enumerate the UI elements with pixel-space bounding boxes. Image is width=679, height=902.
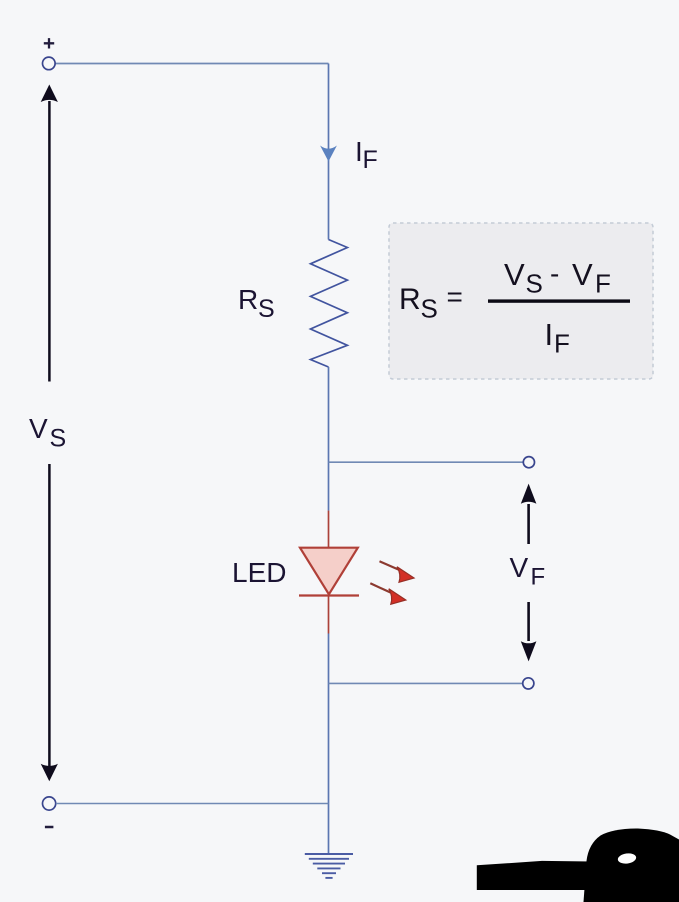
wire bottom horizontal: [56, 803, 329, 805]
LED cathode bar: [299, 594, 359, 596]
LED emission arrow 2: [370, 583, 391, 593]
svg-text:LED: LED: [232, 557, 286, 588]
svg-text:F: F: [363, 146, 378, 174]
svg-text:I: I: [545, 317, 554, 352]
VS down arrow head: [41, 764, 58, 782]
ground symbol: [305, 854, 353, 878]
svg-text:R: R: [399, 283, 421, 316]
node wire to VF top terminal: [329, 461, 524, 463]
terminal + (top left): [43, 57, 56, 70]
formula fraction bar: [488, 299, 630, 302]
VF down arrow: [527, 602, 530, 641]
svg-text:V: V: [510, 552, 529, 583]
terminal VF top: [523, 457, 534, 468]
watermark bar: [477, 861, 592, 890]
svg-text:=: =: [447, 281, 463, 312]
svg-text:F: F: [554, 329, 570, 359]
VF up arrow: [527, 504, 530, 544]
formula box: [389, 223, 653, 379]
wire vertical middle segment: [328, 367, 330, 511]
watermark blob: [584, 829, 679, 902]
LED cathode stem (red): [328, 596, 330, 634]
LED anode stem (red): [328, 511, 330, 548]
node wire to VF bottom terminal: [329, 682, 524, 684]
LED triangle: [300, 548, 358, 595]
svg-text:F: F: [531, 564, 546, 591]
VS up arrow head: [41, 85, 58, 103]
terminal VF bottom: [523, 678, 534, 689]
wire top horizontal from + terminal to corner: [55, 63, 328, 65]
VS arrow lower shaft: [48, 464, 51, 766]
svg-text:-: -: [550, 258, 559, 289]
VS arrow upper shaft: [48, 101, 51, 382]
wire vertical lower segment: [328, 634, 330, 854]
svg-text:S: S: [421, 294, 438, 324]
plus sign: [44, 38, 54, 48]
svg-text:V: V: [504, 257, 525, 292]
minus sign: [45, 826, 54, 829]
current arrow IF on wire: [320, 146, 337, 162]
LED emission arrow 1: [380, 561, 401, 570]
svg-text:S: S: [526, 269, 543, 299]
terminal - (bottom left): [43, 797, 56, 810]
watermark blob hole: [617, 852, 637, 864]
resistor RS zigzag: [311, 240, 348, 368]
svg-text:V: V: [572, 257, 593, 292]
svg-text:V: V: [29, 413, 48, 444]
wire vertical upper segment: [328, 64, 330, 240]
svg-text:F: F: [595, 269, 611, 299]
svg-text:S: S: [50, 425, 67, 453]
svg-text:S: S: [258, 295, 275, 323]
svg-text:R: R: [238, 284, 258, 315]
